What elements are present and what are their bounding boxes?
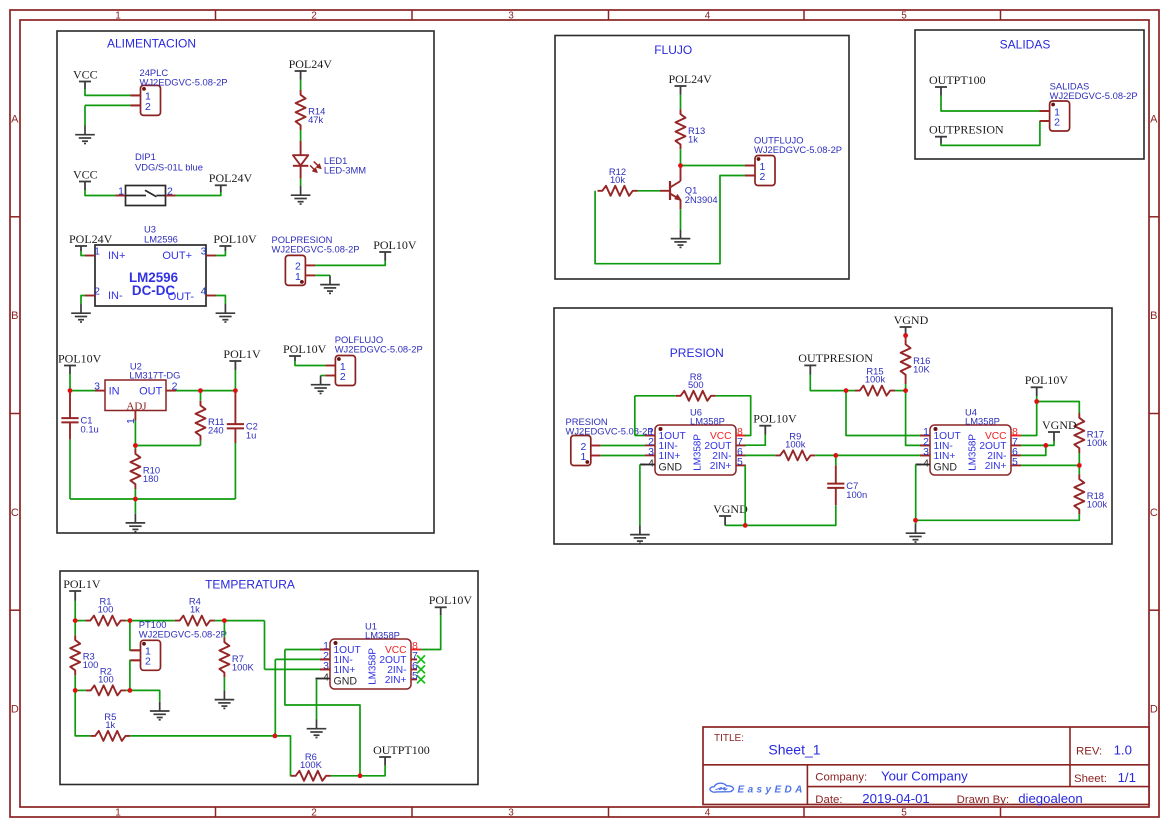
sheet border column numbers top [115, 10, 907, 21]
wire [126, 689, 130, 691]
U4 pin 4 stub [916, 464, 931, 466]
U1 pin numbers right [412, 640, 418, 682]
wire [321, 375, 326, 377]
PT100 pin 1 stub [131, 649, 141, 651]
resistor R6 [291, 751, 331, 781]
wire [941, 96, 1040, 112]
resistor R15 [855, 366, 895, 396]
U4 pin 2 stub [920, 444, 930, 446]
resistor R12 [598, 166, 638, 196]
U4 pin 3 stub [920, 454, 930, 456]
wire [745, 454, 775, 456]
svg-text:OUTPT100: OUTPT100 [929, 73, 986, 87]
capacitor C2 [227, 392, 258, 443]
svg-text:POL10V: POL10V [429, 593, 473, 607]
svg-text:1.0: 1.0 [1114, 743, 1132, 758]
ground (U4 GND) [906, 524, 926, 542]
wire [846, 390, 855, 392]
svg-text:1IN+: 1IN+ [659, 451, 681, 462]
ground (LM317 rail) [126, 514, 146, 532]
U4 pin 7 stub [1011, 444, 1021, 446]
op-amp U6 [641, 407, 747, 475]
sheet border row letters right [1150, 113, 1158, 715]
op-amp U4 [916, 407, 1022, 475]
svg-text:240: 240 [208, 425, 224, 436]
resistor R8 [676, 371, 716, 401]
connector POLFLUJO [325, 334, 422, 386]
svg-text:2: 2 [340, 371, 346, 383]
sheet border column ticks bottom [216, 807, 1001, 817]
svg-text:PRESION: PRESION [670, 346, 724, 360]
svg-text:TEMPERATURA: TEMPERATURA [205, 577, 295, 591]
net flag POL1V (TEMPERATURA) [63, 577, 101, 601]
connector PRESION [566, 416, 654, 466]
U1 pin 5 stub [411, 678, 417, 680]
svg-text:5: 5 [737, 456, 743, 468]
wire [634, 396, 636, 436]
svg-text:2: 2 [145, 656, 151, 668]
wire [1046, 441, 1054, 445]
wire [815, 454, 836, 456]
svg-text:Sheet:: Sheet: [1074, 773, 1107, 785]
ground (R2 node) [150, 702, 170, 720]
wire [265, 668, 321, 670]
junction (R3 / R2 / R5) [73, 688, 78, 693]
svg-text:FLUJO: FLUJO [654, 43, 692, 57]
wire [126, 620, 130, 622]
net flag OUTPRESION (SALIDAS) [929, 123, 1004, 144]
svg-text:LM317T-DG: LM317T-DG [129, 370, 180, 381]
U1 no-connect X pin 7 [417, 655, 425, 663]
SALIDAS pin 1 stub [1040, 110, 1050, 112]
svg-text:POL24V: POL24V [289, 57, 333, 71]
svg-text:100K: 100K [232, 661, 255, 672]
section box FLUJO [555, 36, 849, 280]
wire R9 node to U4 pin 3 [836, 454, 920, 456]
POLPRESION pin 2 stub [305, 264, 315, 266]
svg-text:1: 1 [115, 807, 121, 818]
svg-text:1k: 1k [105, 719, 115, 730]
SALIDAS pin 2 stub [1040, 120, 1050, 122]
OUTFLUJO pin 2 stub [745, 175, 755, 177]
U2 pin 2 stub [166, 390, 176, 392]
wire [1021, 402, 1037, 436]
wire [635, 395, 676, 397]
U2 pin 3 stub [95, 390, 105, 392]
LED1 arrow 2 [310, 165, 314, 169]
U4 pin 8 stub [1011, 435, 1021, 437]
svg-text:1: 1 [580, 451, 586, 463]
svg-text:VCC: VCC [73, 67, 98, 81]
svg-text:POL10V: POL10V [1025, 373, 1069, 387]
svg-text:2: 2 [311, 807, 317, 818]
U3 pin 1 stub [85, 255, 95, 257]
wire [200, 391, 202, 401]
svg-text:VGND: VGND [894, 313, 929, 327]
wire [130, 735, 275, 737]
svg-text:2: 2 [760, 171, 766, 183]
sheet border column numbers bottom [115, 807, 907, 818]
svg-text:B: B [1150, 310, 1157, 322]
wire [681, 165, 746, 167]
sheet border row ticks left [10, 217, 20, 610]
svg-text:TITLE:: TITLE: [714, 733, 744, 744]
svg-text:SALIDAS: SALIDAS [1000, 38, 1051, 52]
wire U6 pin5 to VGND rail [744, 465, 746, 525]
svg-text:180: 180 [143, 473, 159, 484]
U3 pin 4 stub [206, 295, 216, 297]
svg-text:IN-: IN- [108, 290, 123, 302]
sheet border column ticks top [216, 10, 1001, 20]
U6 pin 6 stub [736, 454, 746, 456]
svg-text:1IN+: 1IN+ [934, 451, 956, 462]
U6 pin numbers right [737, 426, 743, 468]
wire [70, 374, 95, 391]
svg-text:4: 4 [648, 457, 654, 469]
svg-text:100k: 100k [1087, 437, 1108, 448]
svg-text:1/1: 1/1 [1118, 770, 1136, 785]
net flag POL10V (U3 output) [213, 232, 257, 251]
net flag POL24V (FLUJO) [669, 72, 713, 95]
resistor R18 [1074, 474, 1107, 514]
svg-text:WJ2EDGVC-5.08-2P: WJ2EDGVC-5.08-2P [139, 629, 227, 640]
net flag POL10V (U1) [429, 593, 473, 615]
svg-text:D: D [1150, 704, 1158, 716]
24PLC pin 1 stub [131, 94, 141, 96]
U1 pin 1 stub [320, 649, 330, 651]
wire R18 to ground rail [916, 514, 1080, 520]
U6 pin 3 stub [645, 454, 655, 456]
section box ALIMENTACION [57, 31, 434, 533]
SALIDAS pin 1 stub [1040, 110, 1050, 112]
wire [223, 677, 225, 690]
svg-text:POL1V: POL1V [63, 577, 101, 591]
svg-text:LM358P: LM358P [368, 648, 379, 685]
regulator U2 LM317T-DG [94, 361, 180, 424]
junction (R17 / R18 / U4 pin5) [1077, 463, 1082, 468]
connector SALIDAS [1040, 81, 1138, 132]
svg-text:POL1V: POL1V [223, 347, 261, 361]
U1 pin 4 stub [316, 678, 331, 680]
wire [315, 274, 330, 276]
junction (R2 / PT100 pin2 / ground) [127, 688, 132, 693]
PT100 pin 1 stub [131, 649, 141, 651]
svg-text:LM358P: LM358P [965, 416, 1000, 427]
wire [601, 445, 645, 447]
svg-text:WJ2EDGVC-5.08-2P: WJ2EDGVC-5.08-2P [754, 144, 842, 155]
wire [216, 296, 225, 305]
junction (U4 GND / VGND rail) [913, 518, 918, 523]
svg-text:LM358P: LM358P [968, 434, 979, 471]
24PLC pin 2 stub [131, 104, 141, 106]
svg-text:2IN+: 2IN+ [985, 461, 1007, 472]
wire [680, 149, 682, 165]
wire U1 pin2 to R5 node [274, 659, 276, 736]
POLPRESION pin 1 stub [305, 274, 315, 276]
wire [295, 361, 325, 366]
U4 pin numbers left [923, 426, 929, 469]
U6 pin names [659, 431, 732, 474]
svg-text:ADJ: ADJ [126, 401, 147, 413]
wire [81, 251, 85, 256]
junction (POL10V / C1) [68, 388, 73, 393]
wire [215, 620, 225, 622]
wire [74, 601, 76, 621]
svg-text:VGND: VGND [1042, 418, 1077, 432]
resistor R3 [70, 635, 98, 675]
svg-text:GND: GND [659, 462, 683, 474]
junction (OUTPRESION / R15 / U4 pin1) [844, 388, 849, 393]
wire [130, 690, 160, 701]
net flag POL10V (U2 input) [58, 351, 102, 374]
ground (Q1 emitter) [671, 229, 691, 247]
svg-text:3: 3 [508, 807, 514, 818]
U4 pin names [934, 431, 1007, 474]
U3 pin 2 stub [85, 295, 95, 297]
wire [601, 455, 645, 457]
wire [635, 435, 645, 437]
resistor R13 [676, 109, 706, 149]
net flag OUTPRESION (PRESION) [798, 351, 873, 374]
net flag POL24V (DIP1) [209, 171, 253, 192]
svg-text:EasyEDA: EasyEDA [738, 784, 806, 795]
ground (U3 OUT-) [216, 304, 236, 322]
ground (LED1) [291, 186, 311, 204]
junction (R9 / C7) [833, 453, 838, 458]
svg-text:LED-3MM: LED-3MM [324, 165, 366, 176]
svg-text:VDG/S-01L blue: VDG/S-01L blue [135, 162, 203, 173]
svg-text:4: 4 [923, 457, 929, 469]
svg-text:2N3904: 2N3904 [685, 194, 718, 205]
ground (U3 IN-) [71, 304, 91, 322]
svg-text:LM358P: LM358P [690, 416, 725, 427]
OUTFLUJO pin 1 stub [745, 165, 755, 167]
svg-text:REV:: REV: [1076, 746, 1102, 758]
OUTFLUJO pin 1 stub [745, 165, 755, 167]
svg-text:IN+: IN+ [108, 250, 125, 262]
junction (VGND / U4 pin7 / pin6) [1043, 443, 1048, 448]
24PLC pin 2 stub [131, 104, 141, 106]
svg-text:100n: 100n [846, 489, 867, 500]
svg-text:500: 500 [688, 379, 704, 390]
wire [638, 190, 661, 192]
svg-text:2: 2 [311, 10, 317, 21]
section box TEMPERATURA [60, 571, 478, 785]
svg-text:D: D [11, 704, 19, 716]
ground [75, 126, 95, 144]
svg-text:C: C [11, 507, 19, 519]
svg-text:100K: 100K [300, 759, 323, 770]
wire [74, 621, 76, 636]
ground (U1 GND) [307, 720, 327, 738]
wire [941, 121, 1040, 145]
U2 pin 1 (ADJ) stub [134, 411, 136, 421]
wire [135, 445, 200, 447]
wire [680, 95, 682, 110]
svg-text:2019-04-01: 2019-04-01 [862, 791, 929, 806]
transistor Q1 2N3904 [660, 166, 718, 210]
svg-text:2IN+: 2IN+ [385, 675, 407, 686]
svg-text:5: 5 [412, 670, 418, 682]
net flag VGND (R16) [894, 313, 929, 336]
svg-text:Your Company: Your Company [881, 769, 968, 784]
wire [134, 489, 136, 499]
svg-text:POL24V: POL24V [209, 171, 253, 185]
svg-text:ALIMENTACION: ALIMENTACION [107, 36, 196, 50]
ground (POLPRESION) [320, 275, 340, 293]
U3 pin 3 stub [206, 255, 216, 257]
U6 pin 4 stub [641, 464, 656, 466]
wire [716, 396, 751, 436]
junction (R6 / U1 pin1 / OUTPT100) [358, 773, 363, 778]
U1 pin 7 stub [411, 658, 417, 660]
junction (POL1V / R1 / R3) [73, 618, 78, 623]
svg-text:100k: 100k [785, 438, 806, 449]
wire [315, 261, 385, 266]
wire [275, 658, 320, 660]
U1 pin 2 stub [320, 658, 330, 660]
wire [85, 104, 131, 106]
wire U6 pin4 to ground [640, 464, 645, 466]
svg-text:OUTPRESION: OUTPRESION [798, 351, 873, 365]
svg-text:LM358P: LM358P [365, 630, 400, 641]
svg-text:POL10V: POL10V [213, 232, 257, 246]
capacitor C7 [827, 465, 867, 505]
svg-text:DIP1: DIP1 [135, 151, 156, 162]
wire [300, 130, 302, 141]
svg-text:4: 4 [323, 671, 329, 683]
junction (R5 / U1 pin2) [273, 734, 278, 739]
U6 pin 8 stub [736, 435, 746, 437]
ground (U6 GND) [630, 525, 650, 543]
wire [300, 80, 302, 91]
svg-text:1: 1 [115, 10, 121, 21]
net flag OUTPT100 (SALIDAS) [929, 73, 986, 96]
svg-text:3: 3 [201, 245, 207, 257]
PRESION pin 2 stub [591, 445, 601, 447]
svg-text:POL10V: POL10V [373, 238, 417, 252]
wire [810, 375, 846, 391]
svg-text:C: C [1150, 507, 1158, 519]
section box SALIDAS [915, 30, 1144, 159]
net flag POL24V (U3 input) [69, 232, 113, 251]
SALIDAS pin 2 stub [1040, 120, 1050, 122]
svg-text:1k: 1k [190, 604, 200, 615]
svg-text:3: 3 [508, 10, 514, 21]
U1 pin names [334, 645, 407, 688]
svg-text:3: 3 [923, 446, 929, 458]
section box PRESION [554, 308, 1112, 544]
wire U1 pin4 to ground [316, 679, 318, 719]
svg-text:A: A [1150, 113, 1158, 125]
svg-text:POL10V: POL10V [58, 351, 102, 365]
svg-text:Company:: Company: [815, 772, 867, 784]
LED LED1 [293, 141, 366, 179]
svg-text:GND: GND [334, 676, 358, 688]
switch DIP1 [118, 151, 203, 206]
svg-text:1k: 1k [688, 133, 698, 144]
wire [680, 209, 682, 229]
Q1 base stub [660, 190, 670, 192]
U4 pin 1 stub [920, 435, 930, 437]
U6 pin 1 stub [645, 435, 655, 437]
connector POLPRESION [272, 234, 360, 285]
wire [915, 465, 917, 525]
resistor R2 [86, 665, 126, 695]
svg-text:5: 5 [1012, 456, 1018, 468]
U6 pin numbers left [648, 426, 654, 469]
svg-text:1: 1 [295, 271, 301, 283]
svg-text:1: 1 [94, 245, 100, 257]
svg-text:0.1u: 0.1u [81, 424, 99, 435]
junction (POL10V / U4 VCC / R17) [1034, 399, 1039, 404]
wire [85, 89, 131, 95]
U6 pin 7 stub [736, 444, 746, 446]
ground (R7) [215, 690, 235, 708]
wire U4 pin4 to ground [916, 464, 921, 466]
wire [1021, 444, 1046, 446]
svg-text:4: 4 [705, 807, 711, 818]
U1 no-connect X pin 5 [417, 675, 425, 683]
connector OUTFLUJO [745, 135, 842, 186]
title block frame [703, 727, 1149, 805]
junction (ADJ / R10 / R11) [133, 443, 138, 448]
EasyEDA logo [710, 783, 806, 795]
net flag POL1V [223, 347, 261, 370]
net flag POL24V (R14) [289, 57, 333, 80]
svg-text:WJ2EDGVC-5.08-2P: WJ2EDGVC-5.08-2P [1050, 90, 1138, 101]
resistor R16 [901, 340, 931, 380]
wire [134, 421, 136, 446]
resistor R9 [775, 430, 815, 460]
wire [130, 620, 175, 622]
svg-text:100k: 100k [1087, 498, 1108, 509]
wire R16 top lead [905, 336, 907, 340]
ground (POLFLUJO) [311, 376, 331, 394]
wire [300, 179, 302, 186]
DIP1 pin 1 stub [116, 195, 126, 197]
svg-text:10k: 10k [610, 174, 625, 185]
svg-text:100: 100 [83, 659, 99, 670]
svg-text:WJ2EDGVC-5.08-2P: WJ2EDGVC-5.08-2P [335, 344, 423, 355]
wire [216, 251, 225, 256]
wire [275, 736, 291, 776]
svg-text:POL24V: POL24V [669, 72, 713, 86]
svg-text:100: 100 [98, 604, 114, 615]
PRESION pin 1 stub [591, 455, 601, 457]
svg-text:100: 100 [98, 673, 114, 684]
junction (Q1 collector / OUTFLUJO) [678, 163, 683, 168]
junction (VGND / R16) [903, 333, 908, 338]
U4 pin 5 stub [1011, 464, 1021, 466]
wire POL1V to OUT node [234, 370, 236, 391]
junction (bottom rail / ground) [133, 497, 138, 502]
resistor R5 [90, 711, 130, 741]
net flag OUTPT100 (TEMPERATURA) [373, 743, 430, 766]
DIP1 pin 2 stub [166, 195, 176, 197]
wire [835, 455, 837, 465]
U1 pin 6 stub [411, 668, 417, 670]
wire [75, 620, 85, 622]
wire U1 pin3 to R4 node [264, 621, 266, 670]
wire [1037, 402, 1080, 414]
svg-text:100k: 100k [865, 374, 886, 385]
24PLC pin 1 stub [131, 94, 141, 96]
U1 pin 8 stub [411, 649, 421, 651]
wire [200, 441, 202, 446]
wire [725, 505, 836, 525]
svg-text:2: 2 [145, 101, 151, 113]
